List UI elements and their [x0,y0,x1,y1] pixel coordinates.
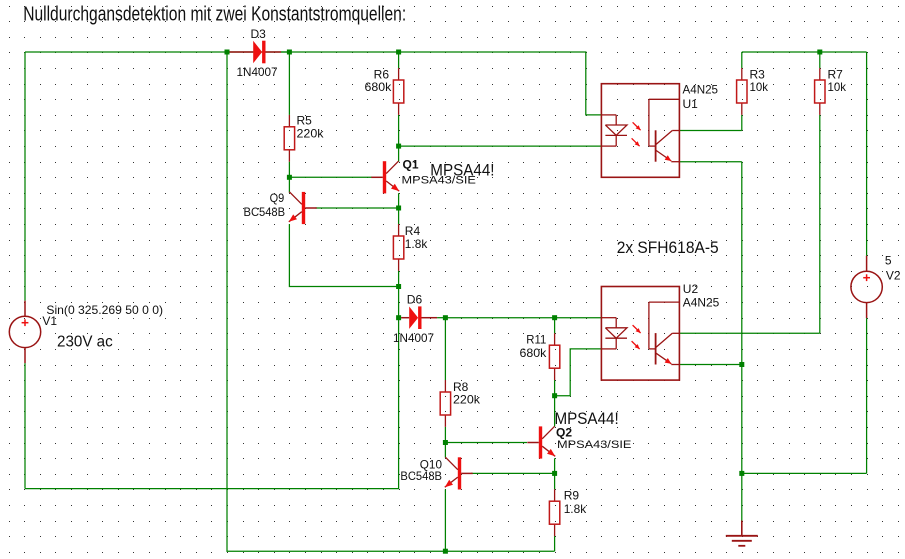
svg-text:R9: R9 [564,489,580,503]
svg-text:Sin(0 325.269 50 0 0): Sin(0 325.269 50 0 0) [46,303,163,317]
svg-text:10k: 10k [828,80,847,94]
svg-text:5: 5 [885,253,892,267]
svg-text:R11: R11 [526,333,546,347]
svg-text:2x SFH618A-5: 2x SFH618A-5 [617,238,719,257]
svg-text:220k: 220k [453,393,481,407]
svg-text:V1: V1 [42,314,57,328]
svg-text:MPSA43/SIE: MPSA43/SIE [402,175,476,187]
svg-text:Nulldurchgansdetektion mit zwe: Nulldurchgansdetektion mit zwei Konstant… [23,4,406,26]
svg-text:Q1: Q1 [403,158,419,172]
svg-text:V2: V2 [886,268,901,282]
svg-text:D3: D3 [251,27,267,41]
svg-text:1.8k: 1.8k [564,502,587,516]
svg-text:Q9: Q9 [270,191,285,205]
svg-text:1N4007: 1N4007 [237,65,278,79]
svg-text:U1: U1 [683,97,699,111]
svg-text:680k: 680k [365,80,393,94]
svg-text:1.8k: 1.8k [405,237,428,251]
svg-text:A4N25: A4N25 [683,296,720,310]
svg-text:A4N25: A4N25 [683,83,719,97]
svg-text:MPSA43/SIE: MPSA43/SIE [557,439,631,451]
svg-text:1N4007: 1N4007 [393,331,434,345]
svg-text:230V ac: 230V ac [57,333,113,350]
svg-text:U2: U2 [683,282,699,296]
svg-text:220k: 220k [297,127,325,141]
svg-text:Q2: Q2 [556,426,572,440]
svg-text:D6: D6 [407,293,423,307]
svg-text:680k: 680k [520,346,548,360]
svg-text:BC548B: BC548B [244,205,286,219]
svg-text:10k: 10k [750,80,769,94]
svg-text:R5: R5 [297,114,313,128]
svg-text:BC548B: BC548B [400,469,442,483]
